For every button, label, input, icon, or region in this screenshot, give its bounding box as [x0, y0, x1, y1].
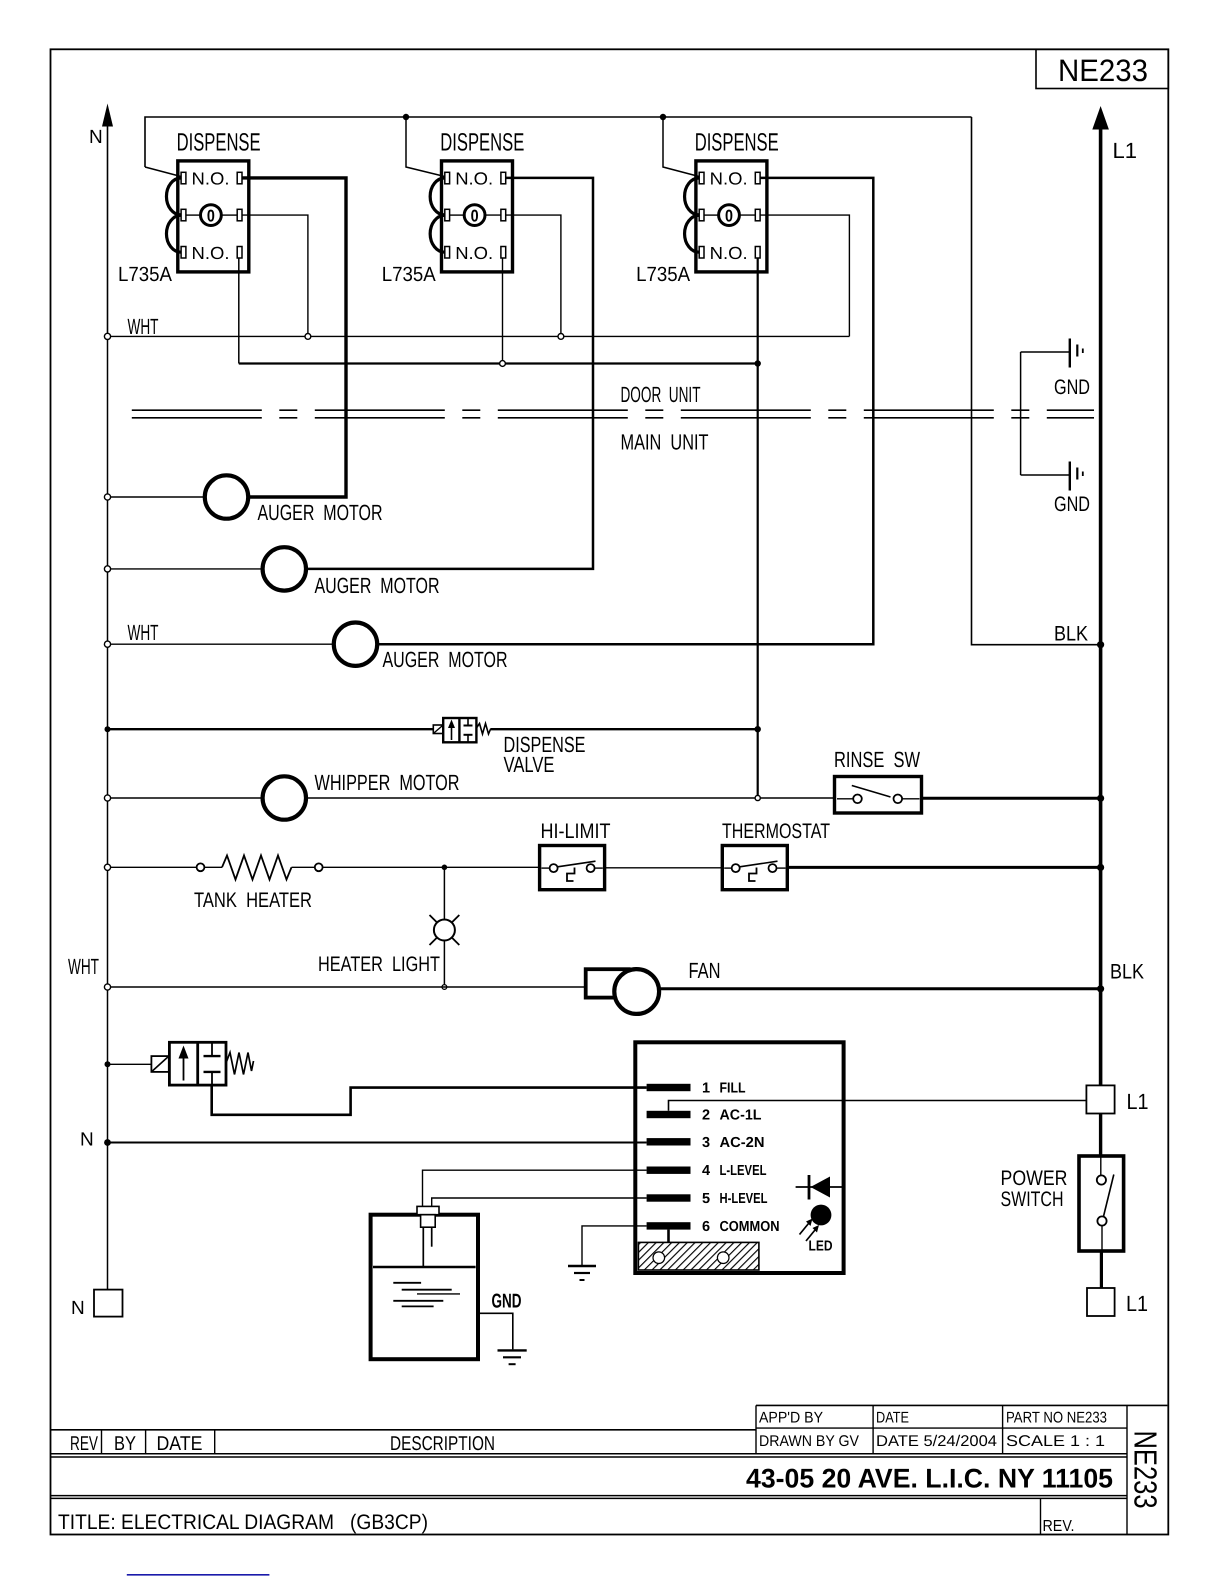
board mounting bar hatched	[638, 1230, 759, 1270]
auger motor 1	[111, 475, 383, 525]
svg-text:DATE: DATE	[157, 1433, 203, 1455]
board terminal 1 FILL	[647, 1081, 746, 1097]
svg-text:AC-1L: AC-1L	[720, 1108, 762, 1124]
LED indicator	[800, 1205, 833, 1255]
svg-text:0: 0	[471, 206, 479, 225]
switch POWER SWITCH	[1001, 1156, 1124, 1251]
tank level probe	[417, 1206, 439, 1266]
svg-text:N.O.: N.O.	[710, 169, 748, 189]
svg-text:BLK: BLK	[1054, 623, 1088, 646]
relay DISPENSE 2 (L735A)	[382, 129, 525, 286]
junction open circle heater light / WHT row	[442, 985, 447, 990]
wire L1 feed top rail y=117	[145, 117, 972, 167]
junction dot heater light tap	[442, 865, 448, 871]
junction open circle relay2 drop	[500, 361, 506, 367]
wire N row to board pin3	[108, 1142, 647, 1144]
svg-text:AUGER MOTOR: AUGER MOTOR	[315, 573, 440, 598]
svg-text:N.O.: N.O.	[455, 243, 493, 263]
svg-text:DISPENSE: DISPENSE	[177, 129, 261, 157]
svg-text:REV: REV	[70, 1433, 98, 1455]
junction dot BLK bus at y=645	[1097, 641, 1104, 648]
svg-text:5: 5	[702, 1191, 710, 1207]
relay DISPENSE 3 (L735A)	[636, 129, 779, 286]
svg-text:WHT: WHT	[128, 620, 159, 645]
junction dot N row at bus	[104, 1139, 111, 1146]
svg-text:AUGER MOTOR: AUGER MOTOR	[383, 647, 508, 672]
wire tank to ground	[478, 1313, 513, 1349]
svg-text:L-LEVEL: L-LEVEL	[720, 1163, 767, 1179]
svg-text:1: 1	[702, 1081, 710, 1097]
junction open circle coil2/WHT	[558, 334, 564, 340]
svg-text:NE233: NE233	[1058, 53, 1148, 88]
svg-text:3: 3	[702, 1135, 710, 1151]
svg-text:GND: GND	[492, 1291, 522, 1313]
svg-text:N.O.: N.O.	[192, 169, 230, 189]
svg-text:GND: GND	[1054, 493, 1090, 516]
svg-text:H-LEVEL: H-LEVEL	[720, 1191, 768, 1207]
svg-text:N.O.: N.O.	[192, 243, 230, 263]
ground GND tank	[492, 1291, 527, 1365]
svg-text:RINSE SW: RINSE SW	[834, 747, 920, 772]
svg-text:2: 2	[702, 1108, 710, 1124]
wire left neutral bus	[107, 336, 109, 1289]
svg-text:POWER: POWER	[1001, 1167, 1068, 1190]
wire fill valve to board pin1	[212, 1085, 647, 1115]
ground GND main unit	[1021, 462, 1090, 517]
wire relay3 feed diagonal	[663, 117, 699, 177]
solenoid valve water inlet	[108, 1042, 254, 1085]
auger motor 3	[111, 623, 508, 673]
svg-text:GND: GND	[1054, 376, 1090, 399]
svg-text:0: 0	[207, 206, 215, 225]
wire board pin2 to L1 terminal	[669, 1101, 1087, 1111]
wire dispense valve row right	[491, 728, 758, 730]
junction dot solenoid row at bus	[105, 1061, 111, 1067]
junction dot BLK bus y=989	[1097, 985, 1104, 992]
wire lower NO bus row	[239, 362, 758, 364]
svg-text:BY: BY	[114, 1433, 136, 1455]
junction open circle relay3 drop / whipper row	[755, 795, 760, 800]
svg-text:FILL: FILL	[720, 1081, 746, 1097]
svg-text:WHT: WHT	[128, 314, 159, 339]
title block texts	[70, 1433, 495, 1455]
svg-text:DRAWN BY GV: DRAWN BY GV	[759, 1433, 860, 1450]
svg-text:L1: L1	[1113, 138, 1137, 163]
wire relay2 NO to auger motor 2	[307, 178, 593, 569]
relay DISPENSE 1 (L735A)	[118, 129, 261, 286]
junction dot BLK bus y=798	[1097, 795, 1104, 802]
svg-text:SWITCH: SWITCH	[1001, 1188, 1064, 1211]
svg-text:DISPENSE: DISPENSE	[440, 129, 524, 157]
title block	[51, 1405, 1168, 1534]
wire WHT rail y=336	[108, 335, 850, 337]
wire relay2 feed diagonal	[406, 117, 445, 177]
wire relay3 NO to auger motor 3	[378, 178, 873, 644]
junction dot valve row at bus	[105, 726, 111, 732]
svg-text:DATE 5/24/2004: DATE 5/24/2004	[876, 1433, 997, 1450]
node L1 supply arrow	[1092, 106, 1137, 1085]
wire board pin5 to tank probe high	[432, 1198, 647, 1206]
wire heater row to hi-limit	[323, 866, 540, 868]
svg-text:WHIPPER MOTOR: WHIPPER MOTOR	[315, 770, 460, 795]
wire relay2 lower NO drop	[502, 258, 504, 364]
left bus open circle junctions	[104, 333, 110, 990]
svg-text:DATE: DATE	[876, 1409, 909, 1426]
lamp HEATER LIGHT	[318, 867, 459, 987]
board terminal 6 COMMON	[647, 1219, 780, 1235]
valve DISPENSE VALVE	[433, 718, 585, 777]
wire board pin6 to ground	[582, 1226, 647, 1266]
svg-text:6: 6	[702, 1219, 710, 1235]
wire relay3 lower NO long drop	[757, 258, 759, 798]
svg-text:THERMOSTAT: THERMOSTAT	[722, 820, 830, 843]
switch HI-LIMIT	[540, 820, 611, 890]
svg-text:N: N	[80, 1130, 94, 1151]
svg-text:COMMON: COMMON	[720, 1219, 780, 1235]
tank heater resistor	[111, 856, 323, 913]
svg-text:L735A: L735A	[118, 263, 172, 286]
svg-text:FAN: FAN	[689, 958, 721, 983]
svg-text:4: 4	[702, 1163, 710, 1179]
board terminal 5 H-LEVEL	[647, 1191, 768, 1207]
wire power switch to L1 box lower	[1100, 1251, 1103, 1288]
svg-text:TANK HEATER: TANK HEATER	[194, 889, 312, 912]
wire dispense valve row left	[108, 728, 434, 730]
svg-text:NE233: NE233	[1128, 1431, 1164, 1509]
svg-text:DESCRIPTION: DESCRIPTION	[390, 1433, 495, 1455]
terminal L1 box upper	[1086, 1085, 1148, 1114]
junction dot BLK bus y=867	[1097, 864, 1104, 871]
svg-text:N: N	[89, 127, 103, 148]
svg-text:HEATER LIGHT: HEATER LIGHT	[318, 953, 440, 976]
board terminal 2 AC-1L	[647, 1108, 762, 1124]
svg-text:N.O.: N.O.	[455, 169, 493, 189]
wire relay2 coil to WHT rail	[506, 215, 561, 336]
wire WHT row to fan	[111, 986, 586, 988]
wire relay1 feed diagonal	[145, 167, 181, 177]
title box NE233 top right	[1036, 49, 1168, 88]
svg-text:L1: L1	[1126, 1291, 1148, 1316]
junction dot valve row / relay3 drop	[755, 726, 761, 732]
control board box	[635, 1042, 843, 1273]
blue underline mark bottom left	[127, 1574, 270, 1576]
svg-text:SCALE 1 : 1: SCALE 1 : 1	[1006, 1433, 1105, 1450]
svg-text:L735A: L735A	[382, 263, 436, 286]
auger motor 2	[111, 547, 440, 598]
svg-text:TITLE: ELECTRICAL DIAGRAM (G: TITLE: ELECTRICAL DIAGRAM (GB3CP)	[58, 1511, 428, 1534]
wire relay3 coil to WHT rail	[760, 215, 849, 336]
svg-text:APP'D BY: APP'D BY	[759, 1409, 823, 1426]
svg-text:43-05 20 AVE. L.I.C. NY 111: 43-05 20 AVE. L.I.C. NY 11105	[746, 1464, 1113, 1494]
board terminal 3 AC-2N	[647, 1135, 765, 1151]
svg-text:WHT: WHT	[68, 954, 99, 979]
fan FAN	[586, 958, 721, 1014]
wire L1 box to power switch	[1099, 1114, 1102, 1157]
junction dot relay3 drop at y=363	[755, 360, 761, 366]
wire hi-limit to thermostat	[605, 867, 723, 869]
switch THERMOSTAT	[722, 820, 830, 890]
svg-text:N: N	[71, 1298, 85, 1319]
wire rinse switch to BLK bus	[922, 797, 1101, 800]
svg-text:AUGER MOTOR: AUGER MOTOR	[258, 500, 383, 525]
door/main unit separator dashed double line	[132, 410, 1094, 418]
svg-text:LED: LED	[809, 1239, 833, 1255]
wire fan to BLK bus	[659, 987, 1101, 990]
junction open circle coil1/WHT	[305, 334, 311, 340]
ground GND door unit	[1021, 339, 1090, 476]
whipper motor	[111, 770, 835, 820]
water tank	[371, 1215, 478, 1360]
svg-text:HI-LIMIT: HI-LIMIT	[541, 820, 611, 843]
wire relay1 coil to WHT rail	[242, 215, 308, 336]
svg-text:VALVE: VALVE	[504, 752, 555, 777]
svg-text:L1: L1	[1127, 1089, 1149, 1114]
wire relay1 NO to auger motor 1	[242, 178, 346, 497]
svg-text:N.O.: N.O.	[710, 243, 748, 263]
wire thermostat to BLK bus	[787, 866, 1100, 869]
junction dot rail/relay3	[660, 114, 666, 120]
terminal N box bottom left	[71, 1290, 123, 1319]
wire relay1 lower NO drop	[238, 258, 240, 364]
svg-text:DOOR UNIT: DOOR UNIT	[621, 382, 701, 407]
ground common pin6	[568, 1266, 596, 1280]
svg-text:MAIN UNIT: MAIN UNIT	[621, 430, 709, 455]
svg-text:0: 0	[725, 206, 733, 225]
svg-text:PART NO NE233: PART NO NE233	[1006, 1409, 1107, 1426]
node N supply arrow	[89, 104, 113, 337]
switch RINSE SW	[834, 747, 922, 813]
svg-text:L735A: L735A	[636, 263, 690, 286]
svg-text:BLK: BLK	[1110, 961, 1144, 984]
wire board pin4 to tank probe low	[423, 1170, 647, 1206]
diode on board	[796, 1175, 844, 1200]
wire L1 rail drop to BLK bus	[972, 117, 1101, 645]
svg-text:DISPENSE: DISPENSE	[695, 129, 779, 157]
board terminal 4 L-LEVEL	[647, 1163, 767, 1179]
junction dot rail/relay2	[403, 114, 409, 120]
svg-text:AC-2N: AC-2N	[720, 1135, 765, 1151]
terminal L1 box lower	[1087, 1288, 1148, 1316]
svg-text:REV.: REV.	[1043, 1518, 1075, 1535]
